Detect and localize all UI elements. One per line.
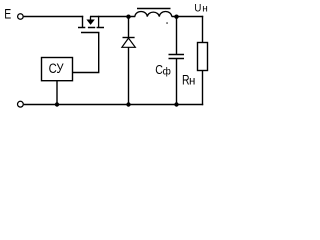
capacitor C bottom lead [176, 59, 178, 105]
wire gate to control unit [73, 33, 99, 73]
wire transistor source to inductor [90, 16, 135, 18]
diode VD cathode bar [123, 37, 135, 39]
svg-text:U: U [194, 2, 201, 15]
junction dot capacitor / top wire [174, 15, 178, 19]
speck artifact [166, 22, 167, 23]
terminal input bottom [18, 101, 24, 107]
diode VD cathode lead [128, 17, 130, 38]
wire inductor to output [172, 16, 204, 18]
svg-text:н: н [189, 76, 195, 88]
wire load to rail [202, 71, 204, 106]
terminal input top [18, 14, 24, 20]
inductor L winding [135, 12, 172, 17]
svg-text:E: E [4, 6, 11, 22]
junction dot capacitor / rail [174, 102, 178, 106]
svg-text:н: н [202, 3, 208, 14]
svg-text:ф: ф [163, 65, 171, 77]
svg-text:СУ: СУ [49, 61, 65, 76]
transistor VT channel dash 3 [97, 27, 104, 29]
diode VD anode lead to rail [128, 47, 130, 105]
transistor VT drain lead [82, 16, 84, 28]
wire control unit to common rail [56, 81, 58, 105]
transistor VT source lead [98, 16, 100, 28]
transistor VT substrate arrow [90, 17, 92, 21]
junction dot control unit / rail [55, 102, 59, 106]
junction dot diode / top wire [126, 15, 130, 19]
diode VD triangle [122, 38, 135, 47]
transistor VT channel dash 1 [78, 27, 85, 29]
wire output down to load [202, 16, 204, 43]
capacitor C top lead [176, 17, 178, 55]
capacitor C top plate [169, 54, 185, 56]
wire input to transistor drain [24, 16, 84, 18]
common bottom rail [24, 104, 204, 106]
transistor VT gate [81, 32, 99, 34]
junction dot diode / rail [126, 102, 130, 106]
capacitor C bottom plate [169, 58, 185, 60]
control unit box [42, 58, 73, 81]
resistor R load body [198, 43, 208, 71]
inductor L core line [137, 8, 171, 10]
transistor VT channel dash 2 [88, 27, 95, 29]
